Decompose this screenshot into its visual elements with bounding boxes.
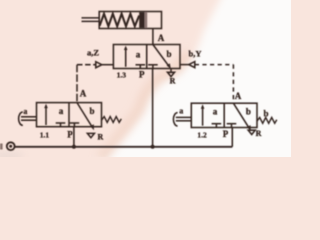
svg-text:A: A bbox=[80, 88, 87, 98]
svg-text:a: a bbox=[179, 106, 183, 115]
svg-text:b: b bbox=[263, 109, 268, 119]
svg-text:P: P bbox=[67, 129, 73, 139]
svg-text:a,Z: a,Z bbox=[87, 48, 99, 58]
svg-text:b,Y: b,Y bbox=[189, 49, 202, 59]
svg-text:R: R bbox=[256, 129, 262, 138]
svg-text:a: a bbox=[59, 106, 64, 116]
svg-text:b: b bbox=[246, 106, 251, 116]
svg-text:b: b bbox=[166, 49, 171, 59]
svg-text:R: R bbox=[170, 77, 176, 86]
svg-text:b: b bbox=[89, 106, 94, 116]
svg-text:R: R bbox=[98, 132, 104, 141]
svg-text:A: A bbox=[158, 33, 165, 43]
svg-text:P: P bbox=[139, 70, 145, 80]
svg-text:1.2: 1.2 bbox=[197, 131, 207, 140]
svg-text:a: a bbox=[213, 106, 218, 116]
svg-text:a: a bbox=[136, 49, 141, 59]
svg-text:P: P bbox=[223, 129, 229, 139]
svg-text:A: A bbox=[235, 91, 242, 101]
svg-text:1.1: 1.1 bbox=[40, 131, 50, 140]
svg-text:1.3: 1.3 bbox=[117, 71, 127, 80]
svg-text:a: a bbox=[23, 107, 27, 116]
